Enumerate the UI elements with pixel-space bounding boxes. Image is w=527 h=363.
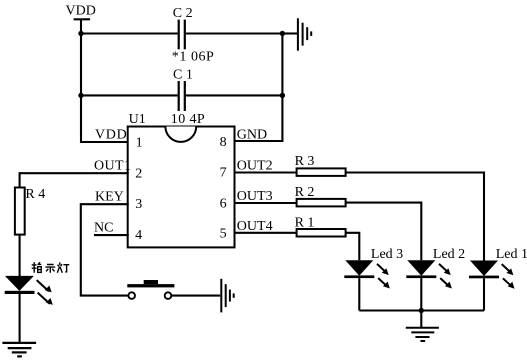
svg-text:C 1: C 1 [173, 68, 193, 83]
svg-text:10 4P: 10 4P [171, 112, 205, 127]
svg-text:5: 5 [220, 227, 227, 242]
power symbol VDD [66, 4, 96, 20]
LED Led 1 [469, 247, 527, 289]
wire C2 right plate to GND node [186, 32, 283, 34]
svg-text:Led 2: Led 2 [433, 247, 465, 262]
ground (bottom middle, sideways) [221, 279, 233, 313]
node VDD-C1 junction [78, 93, 83, 98]
LED Led 3 [344, 247, 403, 288]
svg-text:KEY: KEY [95, 190, 124, 205]
wire Led 3 to common [358, 278, 360, 310]
node C1-GND rail junction [280, 93, 285, 98]
wire switch to bottom-middle ground [171, 295, 220, 297]
resistor R2 [295, 185, 346, 207]
wire GND vertical rail down to pin 8 [235, 34, 283, 142]
svg-text:R 2: R 2 [295, 185, 315, 200]
svg-text:3: 3 [135, 197, 142, 212]
label 指示灯 (drawn strokes) [32, 262, 70, 273]
node common rail junction [419, 308, 424, 313]
svg-text:R 3: R 3 [295, 154, 315, 169]
svg-text:1: 1 [136, 135, 143, 150]
svg-text:6: 6 [220, 197, 227, 212]
wire VDD rail to pin 1 [81, 19, 129, 142]
op-amp U1 chip body [128, 112, 235, 247]
resistor R4 [15, 187, 45, 235]
svg-text:GND: GND [237, 127, 267, 142]
capacitor C2 [172, 6, 215, 65]
wire R4 to indicator LED [19, 235, 21, 277]
svg-text:4: 4 [135, 228, 142, 243]
wire LED to ground [19, 294, 21, 342]
svg-text:C 2: C 2 [173, 6, 193, 21]
LED Led 2 [406, 247, 465, 288]
wire OUT3 pin 6 to R2 [235, 202, 297, 204]
svg-text:U1: U1 [129, 112, 146, 127]
node C2-ground junction [280, 31, 285, 36]
wire common LED cathode rail [359, 309, 484, 311]
wire OUT2 pin 7 to R3 [235, 171, 297, 173]
svg-text:R 1: R 1 [295, 215, 315, 230]
node VDD-C2 junction [78, 31, 83, 36]
wire R3 to Led 1 [346, 173, 484, 261]
svg-text:7: 7 [220, 166, 227, 181]
svg-text:Led 1: Led 1 [496, 247, 527, 262]
wire NC pin 4 stub [94, 234, 129, 236]
wire R1 to Led 3 [346, 233, 360, 260]
resistor R3 [295, 154, 346, 176]
wire C1 right plate to GND rail [186, 94, 283, 96]
capacitor C1 [171, 68, 205, 127]
resistor R1 [295, 215, 346, 236]
wire Led 1 to common [483, 278, 485, 310]
wire KEY pin 3 to switch [81, 204, 129, 295]
wire VDD to C2 left plate [81, 32, 178, 34]
wire OUT1 pin 2 to R4 [20, 173, 129, 187]
wire Led 2 to common [420, 278, 422, 310]
switch S1 (push button) [127, 280, 174, 299]
ground (top right, sideways) [298, 18, 311, 50]
svg-text:R 4: R 4 [25, 187, 45, 202]
wire junction to bottom-right ground [420, 311, 422, 328]
wire VDD to C1 left plate [81, 94, 178, 96]
ground (bottom left) [2, 343, 36, 357]
wire node to top-right ground [282, 32, 297, 34]
svg-text:OUT1: OUT1 [94, 159, 131, 174]
svg-text:8: 8 [220, 135, 227, 150]
svg-text:NC: NC [94, 220, 113, 235]
wire OUT4 pin 5 to R1 [235, 232, 297, 234]
svg-text:VDD: VDD [66, 4, 96, 19]
LED indicator (指示灯) [5, 276, 53, 305]
svg-text:Led 3: Led 3 [371, 247, 403, 262]
svg-text:VDD: VDD [95, 128, 127, 143]
svg-text:2: 2 [135, 167, 142, 182]
ground (bottom right) [406, 328, 439, 341]
svg-text:*1 06P: *1 06P [172, 50, 215, 65]
wire R2 to Led 2 [346, 203, 422, 261]
